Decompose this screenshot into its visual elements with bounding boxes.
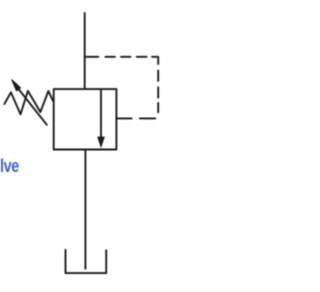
valve body box U1	[54, 89, 117, 149]
spring (zigzag)	[4, 91, 53, 114]
pilot line: dashed vertical run	[157, 71, 159, 81]
pilot line: dashed top run	[105, 56, 115, 58]
pilot line: dashed bottom run	[140, 117, 156, 119]
wire: bottom line to tank	[84, 150, 86, 269]
pilot line: solid stub at box	[116, 117, 131, 119]
adjustability arrow	[19, 90, 47, 125]
pilot line: solid stub at main line	[85, 56, 99, 58]
internal flow arrow	[100, 90, 102, 138]
pilot line: top-right corner	[152, 57, 158, 64]
wire: top supply line P	[84, 13, 86, 89]
tank symbol	[66, 250, 107, 273]
label: valve (clipped)	[0, 156, 19, 177]
